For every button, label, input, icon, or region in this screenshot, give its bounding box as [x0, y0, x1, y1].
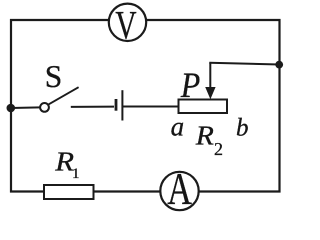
svg-text:b: b [236, 115, 249, 142]
rheostat R2 body [179, 100, 228, 114]
wire: right vertical branch [278, 19, 280, 193]
wire: bottom horizontal branch [10, 190, 281, 192]
label P [180, 67, 200, 106]
battery BT1 [116, 90, 122, 120]
wiper arrow P of R2 [205, 63, 215, 100]
svg-text:V: V [115, 2, 137, 48]
svg-text:S: S [45, 59, 63, 94]
svg-text:a: a [171, 112, 185, 142]
svg-text:1: 1 [72, 166, 80, 182]
label R1 [54, 147, 79, 182]
wire: left vertical branch [10, 19, 12, 193]
resistor R1 body [44, 185, 94, 199]
label R2 [195, 122, 223, 159]
node: right junction dot [275, 61, 283, 69]
wire: wiper to right junction [209, 63, 279, 65]
wire: switch to battery [71, 106, 114, 108]
wire: top horizontal branch [10, 19, 281, 21]
svg-text:2: 2 [214, 139, 223, 159]
wire: junction to switch [11, 106, 41, 109]
wire: battery to rheostat R2 [123, 106, 179, 108]
svg-text:P: P [180, 67, 200, 106]
voltmeter U1 (V) [109, 2, 146, 48]
ammeter U2 (A) [160, 163, 198, 214]
label S [45, 59, 63, 94]
label a [171, 112, 185, 142]
node: left junction dot [7, 104, 16, 113]
svg-text:R: R [195, 122, 214, 151]
label b [236, 115, 249, 142]
svg-text:A: A [167, 163, 192, 214]
switch S [40, 87, 79, 112]
